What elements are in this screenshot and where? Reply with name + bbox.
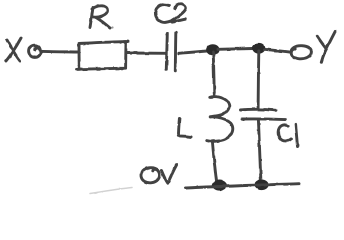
inductor L coil — [207, 95, 233, 142]
wire node A to node B — [218, 47, 253, 51]
junction node D on rail — [255, 180, 268, 190]
stray pencil dot — [111, 26, 113, 28]
terminal Y — [291, 46, 311, 59]
wire C2 to node A — [179, 51, 207, 53]
capacitor C2 — [155, 4, 186, 71]
terminal X — [29, 45, 41, 57]
resistor R — [77, 6, 129, 70]
wire node A down to L — [213, 52, 214, 94]
wire node B to Y terminal — [265, 49, 292, 52]
node Y — [317, 31, 335, 62]
wire R to C2 — [126, 52, 166, 55]
wire node B down to C1 — [257, 51, 261, 109]
wire L to 0V rail — [212, 141, 217, 184]
capacitor C1 — [240, 109, 298, 146]
net 0V rail — [186, 184, 300, 188]
wire C1 to 0V rail — [258, 120, 261, 185]
junction node C on rail — [213, 181, 227, 191]
label 0V — [141, 165, 177, 183]
faint pencil smudge — [90, 188, 132, 194]
junction node A — [207, 45, 219, 55]
junction node B — [253, 43, 265, 53]
node X — [6, 38, 21, 61]
label L — [179, 119, 191, 137]
wire X to R — [41, 50, 79, 54]
